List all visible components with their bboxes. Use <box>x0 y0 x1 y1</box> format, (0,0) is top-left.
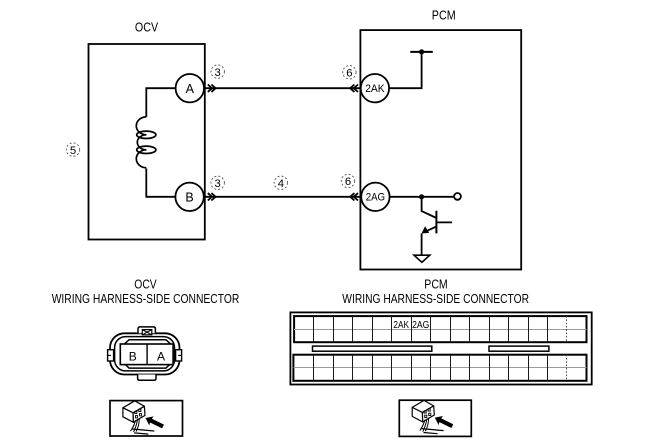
OCV connector title <box>52 276 240 305</box>
svg-text:OCV: OCV <box>135 19 158 34</box>
svg-text:3: 3 <box>215 67 221 79</box>
wire A (OCV internal: A terminal to coil top) <box>146 88 176 117</box>
svg-text:2AG: 2AG <box>366 192 385 204</box>
OCV connector terminal block <box>120 344 173 365</box>
svg-text:2AK: 2AK <box>393 320 409 331</box>
ground <box>414 255 430 262</box>
PCM connector slot 1 <box>313 346 432 351</box>
PCM removal icon <box>412 400 454 433</box>
wire A (OCV to PCM) <box>204 87 361 89</box>
connector arrows wire B OCV side <box>208 193 216 200</box>
terminal B <box>175 183 203 211</box>
OCV connector right side tab <box>176 350 182 361</box>
junction dot node (collector) <box>419 194 424 199</box>
PCM removal icon box <box>399 400 471 436</box>
svg-text:A: A <box>186 82 195 96</box>
svg-text:WIRING HARNESS-SIDE CONNECTOR: WIRING HARNESS-SIDE CONNECTOR <box>342 291 529 306</box>
callout 5 <box>66 143 79 157</box>
callout 4 (wire B) <box>274 176 287 190</box>
junction dot on power rail <box>419 49 424 54</box>
OCV connector body outer <box>110 333 180 374</box>
open circle terminal <box>454 193 461 200</box>
PCM connector bottom pin grid <box>293 355 586 381</box>
svg-text:2AK: 2AK <box>365 83 385 95</box>
callout 6 (wire A) <box>343 66 356 80</box>
wire B (OCV to PCM) <box>204 196 362 198</box>
OCV connector bottom tab <box>138 375 156 381</box>
inductor coil L1 <box>136 117 156 168</box>
svg-text:WIRING HARNESS-SIDE CONNECTOR: WIRING HARNESS-SIDE CONNECTOR <box>52 291 240 306</box>
connector arrows wire B PCM side <box>350 193 358 200</box>
svg-text:OCV: OCV <box>134 276 157 291</box>
svg-text:2AG: 2AG <box>412 320 429 331</box>
PCM connector top pin grid <box>294 316 586 342</box>
PCM connector slot 2 <box>489 346 549 351</box>
callout 3 (wire A) <box>211 65 224 79</box>
callout 6 (wire B) <box>341 174 354 188</box>
wire (2AG to open terminal) <box>389 196 454 198</box>
OCV connector keyway octagon <box>125 340 170 368</box>
connector arrows wire A OCV side <box>208 85 216 92</box>
connector arrows wire A PCM side <box>350 85 358 92</box>
terminal 2AK <box>361 74 389 102</box>
terminal A <box>176 74 204 102</box>
svg-text:PCM: PCM <box>432 7 456 22</box>
terminal 2AG <box>361 183 389 211</box>
OCV connector body inner <box>115 337 175 371</box>
svg-text:3: 3 <box>215 178 221 190</box>
svg-text:6: 6 <box>345 176 351 188</box>
OCV connector left side tab <box>108 350 114 361</box>
svg-text:4: 4 <box>278 178 284 190</box>
svg-text:5: 5 <box>70 145 76 157</box>
OCV removal icon <box>123 401 165 434</box>
PCM connector outer frame <box>290 312 591 384</box>
callout 3 (wire B) <box>211 176 224 190</box>
wire (2AK to power rail) <box>389 52 422 88</box>
wire (coil bottom to B terminal) <box>146 169 175 197</box>
PCM connector title <box>342 276 529 305</box>
svg-text:PCM: PCM <box>424 276 447 291</box>
OCV removal icon box <box>110 401 183 436</box>
svg-text:6: 6 <box>346 68 352 80</box>
power rail bar <box>410 51 433 53</box>
svg-text:B: B <box>185 191 193 205</box>
OCV connector top lock tab <box>138 327 155 335</box>
OCV box <box>89 44 205 240</box>
svg-text:A: A <box>157 349 165 363</box>
transistor Q1 <box>422 197 453 255</box>
svg-text:B: B <box>129 349 137 363</box>
PCM box <box>360 30 521 269</box>
